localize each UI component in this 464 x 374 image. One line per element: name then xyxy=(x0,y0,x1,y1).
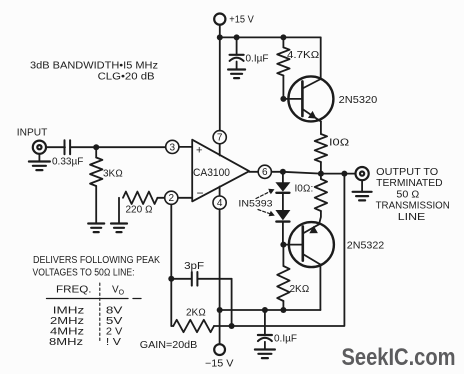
node rail pin4 xyxy=(217,307,223,313)
svg-text:−15 V: −15 V xyxy=(205,359,234,370)
resistor R7 2K feedback xyxy=(171,320,231,332)
ground 3K xyxy=(88,224,104,233)
wire inverting node vertical xyxy=(170,204,172,326)
svg-text:0.33µF: 0.33µF xyxy=(52,157,83,168)
diode D2 1N5393 xyxy=(275,193,290,245)
wire Q2 collector xyxy=(319,265,321,311)
wire output line xyxy=(271,172,355,174)
svg-text:0.IµF: 0.IµF xyxy=(246,54,269,65)
terminal J2 OUTPUT xyxy=(356,167,369,180)
svg-text:I0Ω: I0Ω xyxy=(329,138,350,149)
svg-text:2 V: 2 V xyxy=(106,327,123,338)
svg-text:4.7KΩ: 4.7KΩ xyxy=(287,50,320,61)
wire Q2 base xyxy=(283,244,302,246)
resistor R4 10 ohm xyxy=(315,122,327,174)
terminal J1 INPUT xyxy=(33,141,46,154)
pin 3 circle xyxy=(166,140,193,153)
node 4.7K tap xyxy=(280,34,286,40)
table freq vs Vo xyxy=(47,283,142,348)
leader arrow to D2 xyxy=(258,210,275,217)
node rail cap xyxy=(262,307,268,313)
terminal -15V xyxy=(214,344,225,355)
wire +15V to pin7 xyxy=(219,37,221,130)
svg-text:3pF: 3pF xyxy=(184,261,204,272)
svg-text:VOLTAGES TO 50Ω LINE:: VOLTAGES TO 50Ω LINE: xyxy=(33,268,135,279)
pin 6 circle xyxy=(249,165,271,178)
svg-text:CA3100: CA3100 xyxy=(193,167,230,179)
svg-text:! V: ! V xyxy=(106,337,121,348)
svg-text:+15 V: +15 V xyxy=(229,15,254,26)
pin 2 circle xyxy=(165,191,193,204)
wire feedback to output xyxy=(232,174,345,326)
svg-text:8MHz: 8MHz xyxy=(49,337,83,348)
svg-text:0.IµF: 0.IµF xyxy=(274,334,297,345)
wire input coupling line xyxy=(46,146,166,148)
node feedback tap xyxy=(341,171,347,177)
svg-text:GAIN=20dB: GAIN=20dB xyxy=(140,339,198,351)
terminal +15V xyxy=(214,14,225,38)
diode D1 1N5393 xyxy=(275,172,290,193)
capacitor C1 0.33uF xyxy=(65,140,71,154)
svg-text:2KΩ: 2KΩ xyxy=(290,284,310,295)
svg-text:TERMINATED: TERMINATED xyxy=(376,178,442,189)
svg-text:INPUT: INPUT xyxy=(17,128,48,139)
node 3pF tap xyxy=(168,276,174,282)
wire 3pF right leg xyxy=(231,279,233,326)
label 3dB bandwidth note xyxy=(30,61,158,83)
label OUTPUT TO TERMINATED 50ohm TRANSMISSION LINE xyxy=(376,167,450,223)
wire pin4 to -15V terminal xyxy=(219,209,221,344)
wire -15V rail xyxy=(220,309,321,311)
capacitor C4 3pF xyxy=(171,272,231,286)
ground 220 ohm xyxy=(111,224,127,233)
svg-text:I0Ω:: I0Ω: xyxy=(295,184,314,195)
svg-text:6: 6 xyxy=(262,167,268,178)
capacitor C3 0.1uF xyxy=(258,310,272,350)
svg-text:8V: 8V xyxy=(106,306,123,317)
node 10ohm junction xyxy=(318,171,324,177)
transistor Q1 2N5320 xyxy=(288,76,333,121)
node diode tap xyxy=(280,169,286,175)
ground input xyxy=(29,154,50,170)
transistor Q2 2N5322 xyxy=(289,222,334,267)
wire Q1 collector xyxy=(320,37,322,79)
svg-text:CLG•20 dB: CLG•20 dB xyxy=(98,72,155,83)
svg-text:50 Ω: 50 Ω xyxy=(396,189,419,200)
resistor R6 2K pulldown xyxy=(277,245,289,310)
svg-text:3: 3 xyxy=(170,142,176,153)
svg-text:−: − xyxy=(197,186,204,200)
ground C2 xyxy=(228,70,245,79)
svg-text:DELIVERS FOLLOWING PEAK: DELIVERS FOLLOWING PEAK xyxy=(33,255,160,266)
svg-text:2MHz: 2MHz xyxy=(50,316,84,327)
resistor R1 3K xyxy=(90,147,102,223)
pin 7 circle xyxy=(213,131,226,156)
svg-text:FREQ.: FREQ. xyxy=(56,285,92,296)
node cap tap xyxy=(234,34,240,40)
node Q2 base xyxy=(280,242,286,248)
capacitor C2 0.1uF xyxy=(230,37,244,69)
op-amp U1 CA3100 triangle xyxy=(192,140,249,202)
wire +15V rail xyxy=(220,36,321,38)
svg-text:IMHz: IMHz xyxy=(53,306,84,317)
svg-text:220 Ω: 220 Ω xyxy=(126,205,153,216)
svg-text:+: + xyxy=(196,145,202,157)
svg-text:2N5320: 2N5320 xyxy=(339,94,378,106)
node input junction xyxy=(93,144,99,150)
resistor R3 4.7K xyxy=(277,37,289,99)
node rail 2K xyxy=(280,307,286,313)
svg-text:4: 4 xyxy=(217,198,223,209)
svg-text:LINE: LINE xyxy=(398,212,426,223)
ground C3 xyxy=(255,350,275,359)
svg-text:4MHz: 4MHz xyxy=(50,327,84,338)
svg-text:IN5393: IN5393 xyxy=(238,199,272,210)
node +15 stub xyxy=(217,34,223,40)
svg-text:7: 7 xyxy=(217,133,223,144)
svg-text:3KΩ: 3KΩ xyxy=(103,169,123,180)
leader arrow to D1 xyxy=(256,189,275,199)
svg-text:OUTPUT TO: OUTPUT TO xyxy=(376,167,438,178)
svg-text:3dB BANDWIDTH•I5 MHz: 3dB BANDWIDTH•I5 MHz xyxy=(30,61,158,72)
svg-text:2KΩ: 2KΩ xyxy=(186,308,206,319)
svg-text:SeekIC.com: SeekIC.com xyxy=(342,344,456,371)
svg-text:5V: 5V xyxy=(106,316,123,327)
wire Q1 base xyxy=(283,98,302,100)
pin 4 circle xyxy=(213,187,226,210)
resistor R2 220 ohm xyxy=(119,192,164,224)
label delivers note xyxy=(33,255,161,279)
svg-text:2N5322: 2N5322 xyxy=(347,239,385,251)
resistor R5 10 ohm lower xyxy=(315,174,327,225)
ground output xyxy=(353,180,372,200)
node feedback junction xyxy=(229,323,235,329)
svg-text:TRANSMISSION: TRANSMISSION xyxy=(376,201,450,212)
node Q1 base xyxy=(280,96,286,102)
svg-text:2: 2 xyxy=(169,193,175,204)
